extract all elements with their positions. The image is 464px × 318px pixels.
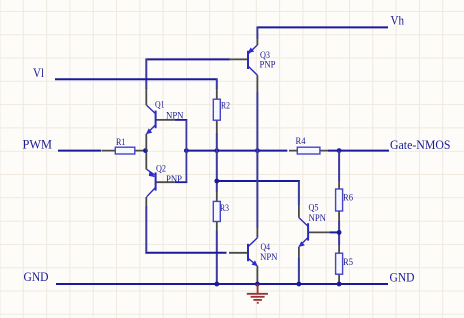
transistor Q2 [146,153,182,207]
svg-text:PNP: PNP [166,175,182,185]
junction Q5e-GND [297,282,302,287]
resistor R1 [102,138,144,154]
svg-text:Q5: Q5 [309,204,319,214]
transistor Q4 [229,228,278,284]
node E junction (Q5 base) [337,230,342,235]
wire node C down to R3 [216,151,218,192]
wire R6 bottom to node E [338,221,340,245]
ground symbol [247,284,268,303]
wire Q1 base down to node B [175,119,188,121]
resistor R4 [289,137,328,154]
node D junction (Q3/Q4) [255,148,260,153]
wire main horizontal run R1 to R4 [184,150,287,152]
wire Q5 emitter to GND rail [298,258,300,284]
svg-text:Vh: Vh [391,13,405,28]
wire x146 down to Q1 collector [145,58,147,89]
wire R2 bottom to node C [216,133,218,151]
wire R3 bottom to GND rail [216,231,218,284]
wire Vl rail [55,78,217,80]
wire Q2 collector to Q4 base [145,206,147,252]
svg-text:NPN: NPN [309,214,327,224]
svg-text:Q1: Q1 [155,101,165,111]
wire Vh rail [257,26,388,28]
junction R3-GND [214,282,219,287]
node A junction [143,148,148,153]
node C junction (R2/R3) [214,148,219,153]
svg-text:GND: GND [24,269,49,284]
transistor Q1 [146,88,184,151]
transistor Q5 [299,204,331,258]
wire node R3-top to Q5 collector [217,180,300,182]
svg-text:R5: R5 [343,258,353,268]
svg-text:GND: GND [390,270,415,285]
node B junction [184,148,189,153]
wire R4 to Gate-NMOS [328,150,389,152]
wire node R6-top down to R6 [338,151,340,181]
node R6-top junction [337,148,342,153]
svg-text:R6: R6 [343,193,353,203]
resistor R3 [213,192,229,231]
svg-text:R1: R1 [116,138,126,148]
junction Q4e-GND [255,282,260,287]
svg-text:Q3: Q3 [260,51,270,61]
transistor Q3 [229,37,276,92]
resistor R5 [336,245,354,284]
wire Q3 collector to node D to Q4 collector [256,92,258,228]
svg-text:R3: R3 [220,204,229,214]
resistor R6 [336,181,354,221]
svg-text:Vl: Vl [33,65,44,80]
svg-text:NPN: NPN [260,253,278,263]
junction R5-GND [337,282,342,287]
svg-text:Q2: Q2 [156,165,166,175]
svg-text:R2: R2 [221,102,230,112]
svg-text:PWM: PWM [23,137,53,152]
wire Vl down to R2 [216,78,218,89]
wire GND rail [56,283,388,285]
svg-text:PNP: PNP [260,61,276,71]
wire Q3 base to node x146 [146,58,230,60]
wire Q2 base up to node B [175,181,188,183]
wire Q5 base to node E [330,231,339,233]
svg-text:Q4: Q4 [261,243,271,253]
wire Vh down to Q3 emitter [256,26,258,39]
svg-text:Gate-NMOS: Gate-NMOS [390,137,451,152]
node R3-top junction [214,179,219,184]
svg-text:R4: R4 [296,137,306,147]
resistor R2 [213,88,230,133]
wire PWM to R1 [58,150,101,152]
